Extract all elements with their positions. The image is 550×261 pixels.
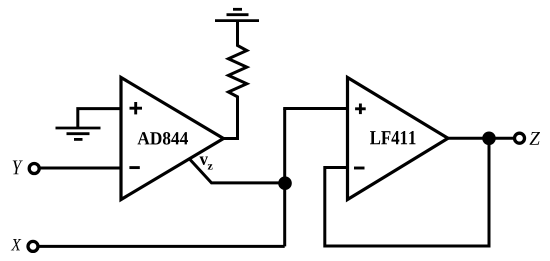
op-amp U1 AD844 xyxy=(121,78,224,200)
wire U2 output xyxy=(447,137,515,140)
op-amp U2 LF411 xyxy=(348,78,449,200)
pin - of U2 xyxy=(354,167,365,170)
terminal X xyxy=(28,241,38,251)
resistor R1 xyxy=(228,21,246,139)
node B (output junction dot) xyxy=(482,132,496,146)
label LF411 xyxy=(370,131,416,144)
pin + of U2 xyxy=(355,104,366,115)
wire node A vertical (X line up to + feed) xyxy=(283,109,286,247)
terminal Y xyxy=(29,164,39,174)
wire ground to + input of U1 xyxy=(78,109,121,127)
label v_z xyxy=(200,157,209,166)
wire apex of U1 to resistor xyxy=(222,137,240,140)
wire X to node line xyxy=(38,245,285,248)
label X xyxy=(11,239,21,250)
wire feedback from node B to - input of U2 xyxy=(325,138,489,246)
wire to + input of U2 xyxy=(283,107,349,110)
label AD844 xyxy=(138,132,189,145)
pin + of U1 xyxy=(130,102,143,114)
terminal Z xyxy=(515,133,525,143)
label Z xyxy=(530,132,541,145)
ground GND1 (left) xyxy=(56,128,101,139)
node A (junction dot) xyxy=(278,176,292,190)
wire Y to - input of U1 xyxy=(39,167,121,170)
wire v_z tap from U1 to node A xyxy=(190,160,285,183)
label Y xyxy=(13,161,23,175)
pin - of U1 xyxy=(129,166,139,169)
ground GND2 (inverted, top) xyxy=(215,9,259,20)
